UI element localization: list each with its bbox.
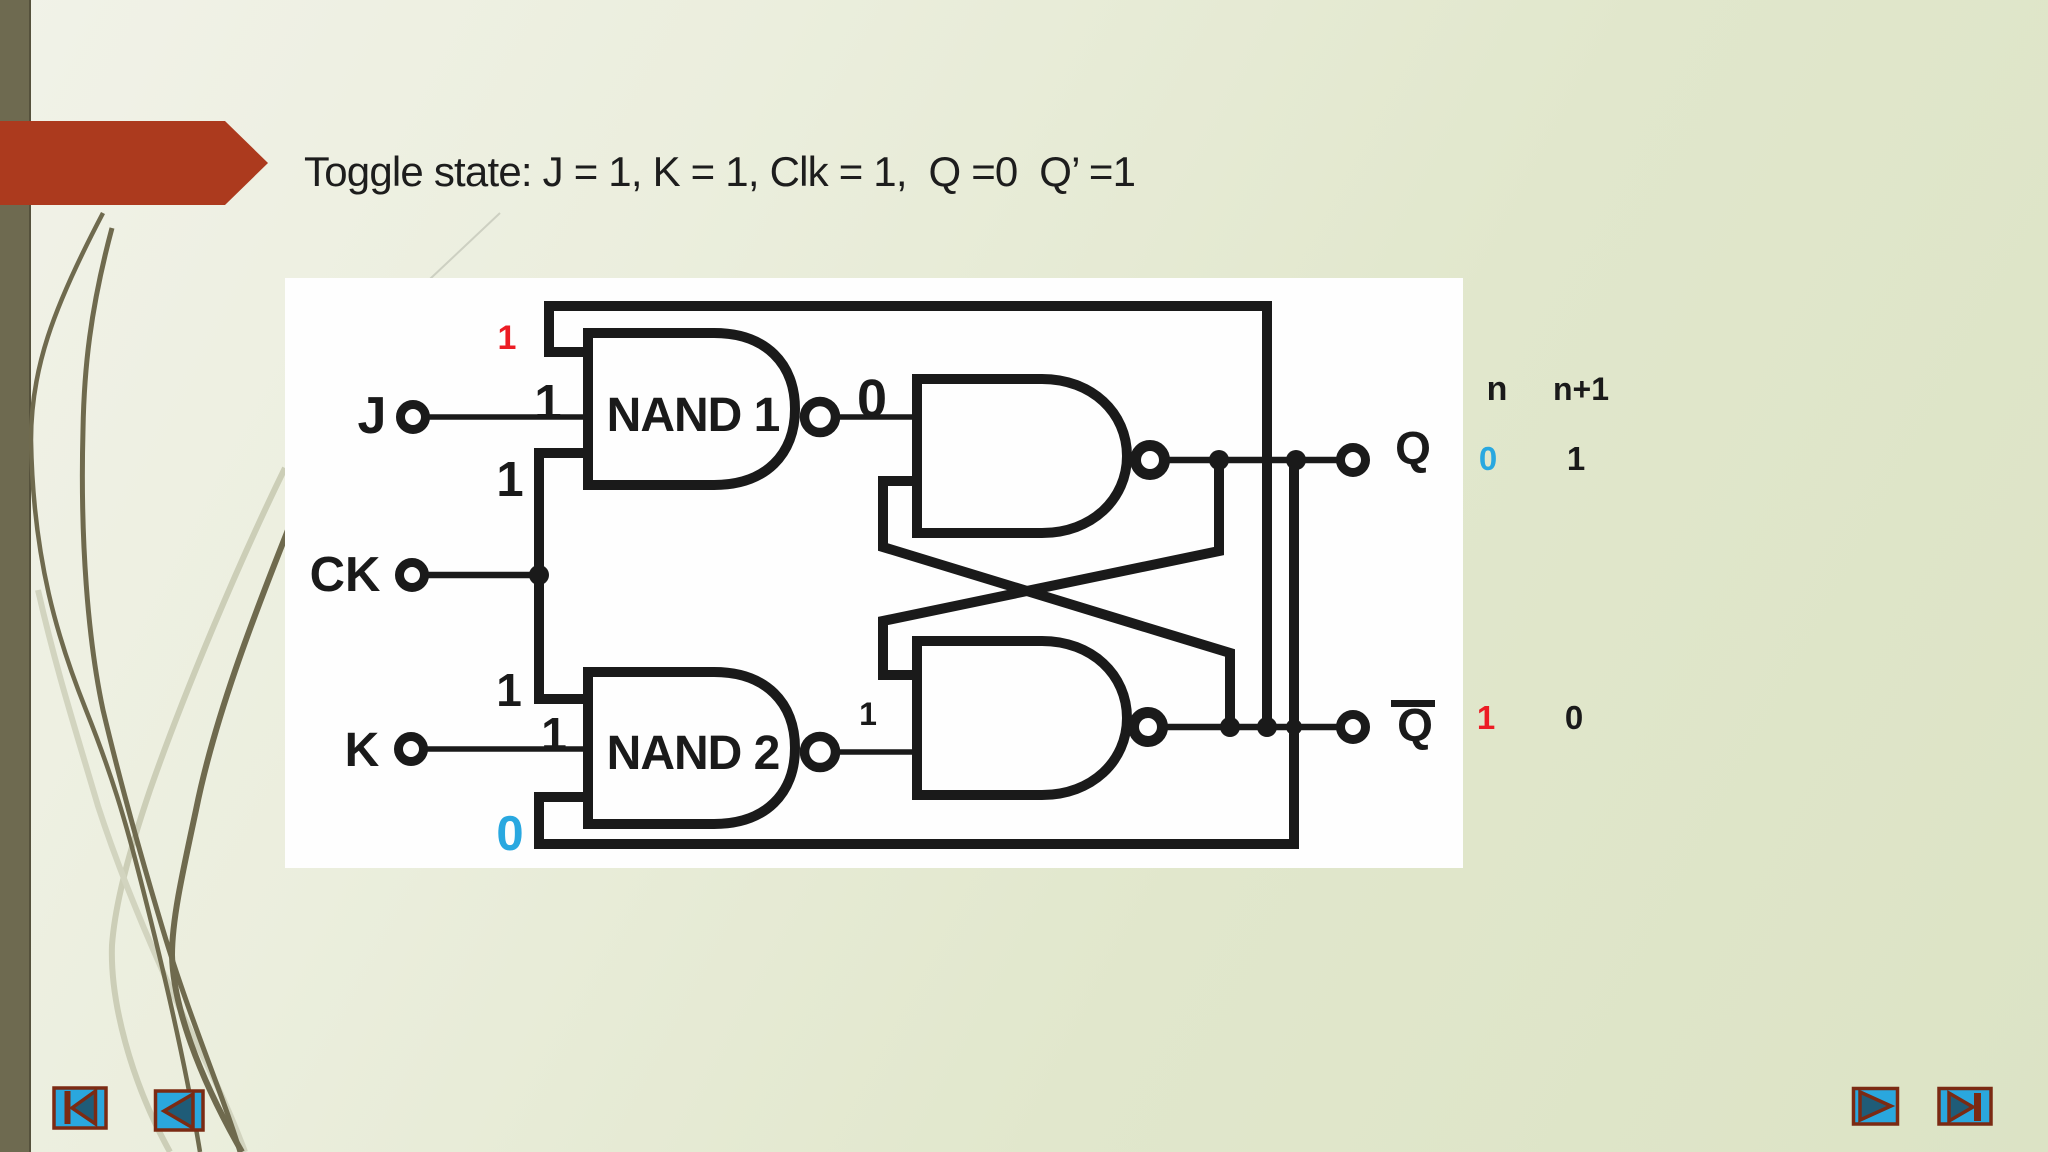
- svg-text:0: 0: [496, 807, 523, 861]
- svg-text:Q: Q: [1395, 422, 1431, 474]
- svg-text:1: 1: [1477, 699, 1495, 736]
- svg-text:0: 0: [857, 369, 887, 429]
- svg-text:1: 1: [498, 319, 517, 357]
- svg-text:n: n: [1487, 370, 1508, 408]
- svg-text:1: 1: [541, 708, 567, 760]
- svg-text:1: 1: [496, 664, 522, 716]
- svg-text:1: 1: [1567, 440, 1585, 477]
- svg-text:0: 0: [1565, 699, 1583, 736]
- svg-text:0: 0: [1479, 440, 1497, 477]
- svg-text:NAND 2: NAND 2: [607, 727, 780, 780]
- svg-text:CK: CK: [310, 548, 381, 602]
- svg-text:n+1: n+1: [1553, 371, 1609, 407]
- svg-text:K: K: [345, 724, 380, 777]
- svg-text:NAND 1: NAND 1: [607, 389, 780, 442]
- svg-text:1: 1: [496, 453, 523, 507]
- svg-text:1: 1: [859, 696, 877, 732]
- svg-text:Toggle state: J = 1, K = 1, Cl: Toggle state: J = 1, K = 1, Clk = 1, Q =…: [304, 148, 1135, 195]
- svg-text:1: 1: [534, 376, 561, 430]
- svg-text:J: J: [358, 387, 387, 445]
